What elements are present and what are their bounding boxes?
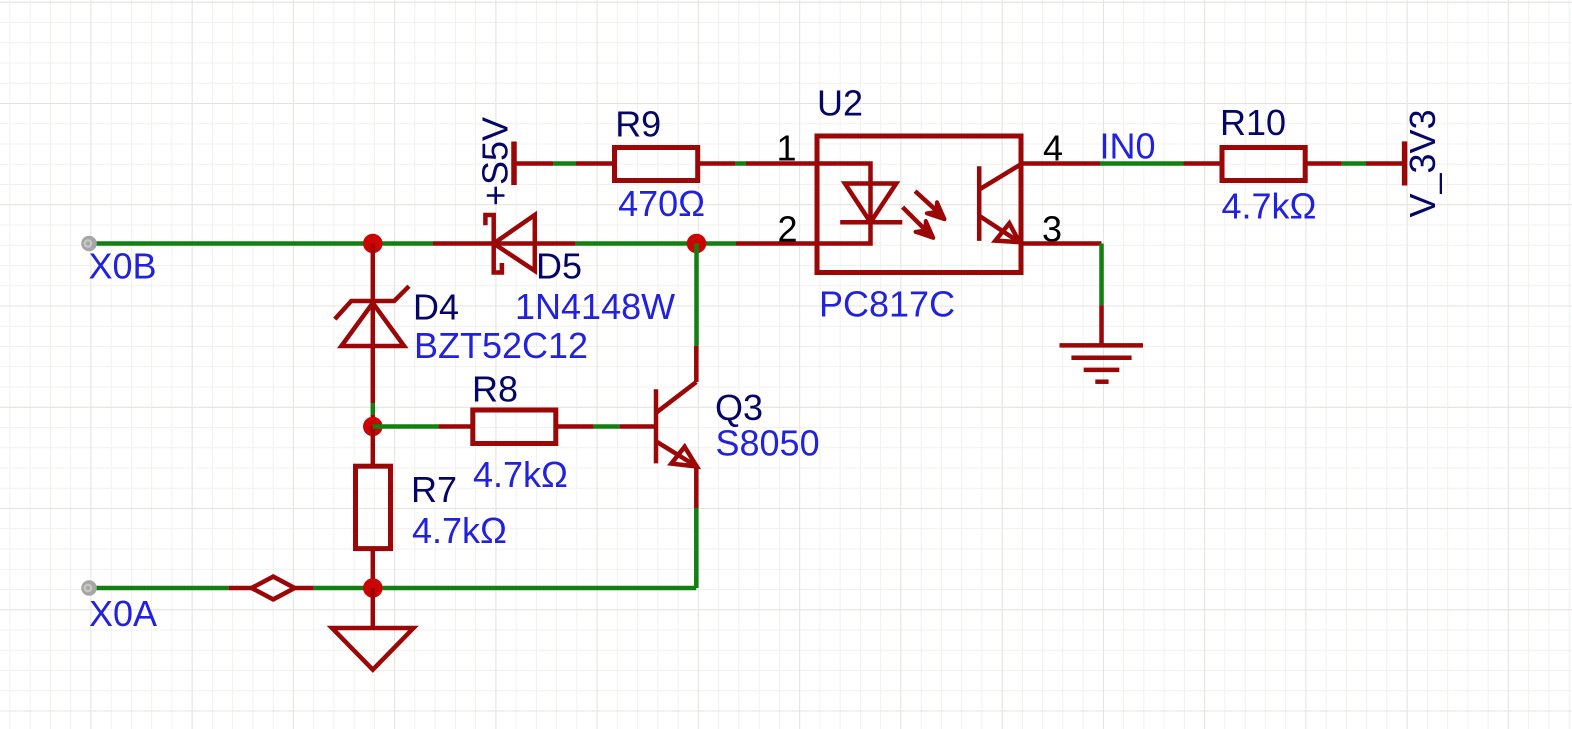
svg-text:R7: R7 xyxy=(411,469,457,510)
wire xyxy=(1021,161,1100,166)
svg-text:X0A: X0A xyxy=(89,593,157,634)
junction xyxy=(363,417,383,437)
wire xyxy=(553,161,576,166)
wire xyxy=(373,424,439,429)
wire xyxy=(575,241,736,246)
resistor R9 xyxy=(576,148,735,181)
wire xyxy=(371,403,376,415)
wire xyxy=(694,508,699,588)
power +S5V xyxy=(514,142,553,186)
diode D5 xyxy=(433,215,575,273)
wire xyxy=(89,241,433,246)
svg-text:R8: R8 xyxy=(472,368,518,409)
svg-text:4.7kΩ: 4.7kΩ xyxy=(412,510,507,551)
optocoupler U2 xyxy=(817,136,1021,273)
svg-text:470Ω: 470Ω xyxy=(618,183,705,224)
pin X0A xyxy=(81,580,97,596)
wire xyxy=(736,241,817,246)
wire xyxy=(694,244,699,346)
svg-text:PC817C: PC817C xyxy=(819,283,955,324)
junction xyxy=(687,234,707,254)
wire xyxy=(735,161,746,166)
pin X0B xyxy=(81,236,97,252)
wire xyxy=(373,586,697,591)
transistor Q3 xyxy=(656,346,697,508)
resistor R7 xyxy=(356,427,391,589)
resistor R10 xyxy=(1184,148,1342,181)
svg-text:X0B: X0B xyxy=(89,245,157,286)
svg-text:BZT52C12: BZT52C12 xyxy=(414,325,588,366)
zener diode D4 xyxy=(335,244,409,427)
svg-text:D4: D4 xyxy=(413,287,459,328)
ground xyxy=(332,588,414,670)
junction xyxy=(363,578,383,598)
svg-text:4.7kΩ: 4.7kΩ xyxy=(473,454,568,495)
svg-text:1: 1 xyxy=(777,127,797,168)
svg-text:R9: R9 xyxy=(615,103,661,144)
svg-text:R10: R10 xyxy=(1220,102,1286,143)
ground xyxy=(1060,305,1144,382)
wire xyxy=(594,424,620,429)
wire xyxy=(1099,244,1104,306)
svg-text:D5: D5 xyxy=(536,245,582,286)
wire xyxy=(1021,241,1102,246)
wire xyxy=(314,586,373,591)
svg-text:2: 2 xyxy=(778,209,798,250)
diamond marker xyxy=(229,577,314,600)
svg-text:S8050: S8050 xyxy=(716,422,820,463)
wire xyxy=(1100,161,1184,166)
power V_3V3 xyxy=(1366,141,1405,185)
wire xyxy=(89,586,229,591)
wire xyxy=(620,424,656,429)
wire xyxy=(1342,161,1366,166)
svg-text:IN0: IN0 xyxy=(1100,125,1156,166)
svg-text:1N4148W: 1N4148W xyxy=(515,286,675,327)
junction xyxy=(363,234,383,254)
svg-text:+S5V: +S5V xyxy=(475,117,516,206)
svg-text:U2: U2 xyxy=(817,83,863,124)
resistor R8 xyxy=(438,410,593,444)
wire xyxy=(746,161,817,166)
svg-text:V_3V3: V_3V3 xyxy=(1402,109,1443,217)
svg-text:4.7kΩ: 4.7kΩ xyxy=(1222,185,1317,226)
